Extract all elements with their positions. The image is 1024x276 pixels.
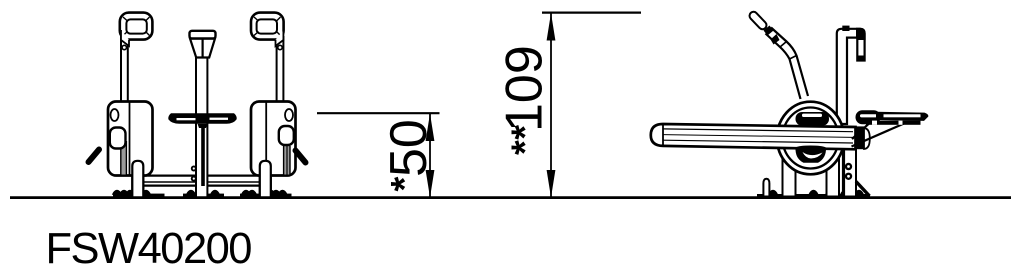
handlebar tube — [764, 26, 809, 100]
left pedal pad — [110, 128, 126, 149]
housing outer disc — [777, 102, 844, 175]
handlebar grip — [748, 10, 768, 31]
diagonal brace — [856, 182, 870, 197]
arrow **109 bottom — [547, 170, 556, 198]
right post — [277, 36, 284, 103]
housing inner ring — [783, 108, 839, 169]
ground line — [10, 196, 1011, 199]
bottom pedal pad — [795, 146, 826, 163]
side anchor strip — [757, 190, 870, 197]
seat strut long — [852, 124, 905, 147]
anchor strip group C (under right body) — [240, 190, 292, 197]
rear support column — [844, 148, 857, 197]
arm end cap — [855, 126, 870, 149]
base bar left segment — [143, 176, 196, 186]
left support leg — [783, 160, 796, 197]
arm platform — [651, 124, 856, 149]
centre cup (seat-post head) — [190, 31, 216, 58]
hook post — [837, 26, 866, 124]
extension line *50 — [317, 112, 440, 114]
anchor strip group B (under centre post) — [183, 190, 224, 197]
arrow *50 bottom — [426, 170, 435, 198]
centre post lower — [196, 100, 207, 197]
right support leg — [827, 158, 840, 197]
small rounded post — [763, 179, 769, 197]
right leg redraw (in front of body) — [260, 161, 271, 197]
arrow **109 top — [547, 13, 556, 41]
svg-text:109: 109 — [496, 45, 554, 132]
seat clamp — [856, 110, 881, 124]
dimension line **109 — [550, 13, 552, 198]
left pedal lever — [89, 150, 100, 163]
base bar right segment — [208, 176, 261, 186]
centre inner dark line — [201, 124, 205, 186]
anchor strip group A (under left body) — [112, 190, 165, 197]
left handlebar loop — [120, 13, 153, 46]
right handlebar loop — [251, 13, 284, 46]
left body — [108, 102, 153, 176]
left body leg — [132, 161, 143, 197]
right pedal lever — [296, 151, 306, 163]
arrow *50 top — [426, 114, 435, 142]
right grey strip — [284, 146, 290, 175]
top pedal pad — [796, 112, 830, 126]
right body leg — [260, 161, 271, 197]
left leg redraw (in front of body) — [132, 161, 143, 197]
extension line **109 — [542, 12, 641, 14]
svg-text:*: * — [384, 177, 426, 192]
left post — [121, 36, 128, 103]
right body — [251, 102, 296, 176]
dimension line *50 — [429, 114, 431, 198]
svg-text:50: 50 — [380, 119, 438, 177]
centre post bolts — [191, 166, 197, 182]
right pedal pad — [279, 126, 294, 145]
svg-text:FSW40200: FSW40200 — [46, 225, 253, 273]
svg-text:**: ** — [505, 124, 547, 155]
seat strut short — [852, 124, 869, 140]
seat disc — [168, 113, 236, 128]
left grey strip — [121, 141, 127, 175]
seat platform — [866, 112, 928, 125]
